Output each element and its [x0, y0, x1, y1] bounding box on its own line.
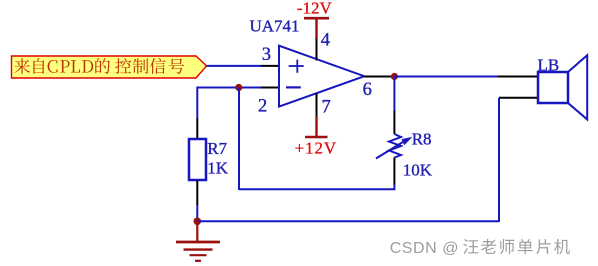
wire: output node down to R8 — [393, 77, 395, 111]
resistor R8 (variable, 10K) — [376, 134, 413, 159]
wire: output to speaker — [394, 76, 498, 78]
wire: inverting input run from R7 node — [197, 87, 261, 89]
svg-text:-12V: -12V — [297, 0, 333, 17]
pin 2 stub — [261, 87, 280, 89]
speaker bottom pin stub — [499, 97, 539, 99]
R8 bottom pin stub — [393, 158, 395, 185]
svg-text:R7: R7 — [207, 139, 227, 158]
svg-text:UA741: UA741 — [250, 17, 300, 36]
wire: callout to pin 3 — [207, 65, 262, 67]
svg-text:R8: R8 — [412, 129, 432, 148]
R7 top pin stub — [196, 118, 198, 140]
op-amp U1 (UA741) — [279, 46, 364, 107]
svg-text:LB: LB — [538, 56, 560, 75]
pin 6 stub — [364, 76, 391, 78]
junction: feedback tap on pin 2 wire — [235, 84, 242, 91]
svg-text:1K: 1K — [207, 158, 229, 177]
R7 bottom pin stub — [196, 180, 198, 205]
pin 4 stub — [316, 38, 318, 61]
svg-text:7: 7 — [322, 97, 331, 117]
svg-text:4: 4 — [321, 31, 330, 51]
wire: R7 to ground node — [196, 205, 198, 221]
wire: feedback riser to pin 2 node — [238, 88, 240, 191]
resistor R7 — [189, 139, 206, 180]
svg-text:10K: 10K — [403, 161, 433, 180]
net label callout: 来自CPLD的控制信号 — [12, 56, 207, 78]
R8 top pin stub — [393, 111, 395, 135]
power -12V — [297, 0, 333, 38]
junction: output node — [391, 73, 398, 80]
pin 3 stub — [261, 65, 280, 67]
svg-text:+12V: +12V — [295, 139, 337, 158]
speaker LB — [538, 55, 587, 119]
wire: pin 2 node down to R7 — [196, 87, 198, 119]
pin 7 stub — [316, 93, 318, 116]
junction: ground node — [194, 218, 202, 226]
svg-text:CSDN @: CSDN @ — [390, 240, 459, 257]
watermark: CSDN @汪老师单片机 — [390, 239, 570, 257]
power +12V — [295, 116, 337, 158]
wire: speaker return riser — [498, 98, 500, 222]
wire: R8 bottom to feedback corner — [239, 185, 394, 190]
svg-text:2: 2 — [258, 97, 267, 117]
speaker top pin stub — [498, 76, 539, 78]
svg-text:3: 3 — [262, 45, 271, 65]
svg-text:6: 6 — [363, 80, 372, 100]
ground — [176, 221, 220, 260]
wire: ground run to speaker return riser — [197, 220, 499, 222]
